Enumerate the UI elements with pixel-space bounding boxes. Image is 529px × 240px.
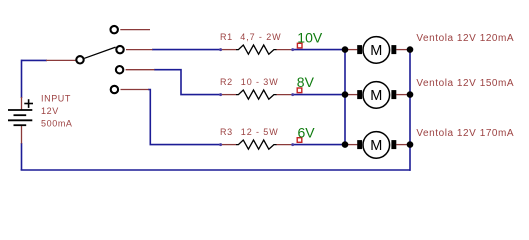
svg-text:4,7 - 2W: 4,7 - 2W	[240, 32, 281, 42]
wire battery bottom vertical	[21, 143, 23, 170]
resistor pin nodes	[219, 48, 294, 146]
node probe square row3	[297, 138, 302, 143]
switch SW1 pole lead	[46, 59, 76, 61]
resistor R3 zigzag	[236, 140, 277, 149]
motor M2 leads	[345, 94, 410, 96]
svg-text:Ventola 12V 120mA: Ventola 12V 120mA	[416, 33, 514, 44]
wire row3 R3 to motor bus	[293, 144, 346, 146]
switch contact 2 lead	[126, 49, 153, 51]
wire right bus vertical	[409, 50, 411, 171]
motor M3 left terminal	[357, 140, 362, 149]
svg-text:10V: 10V	[297, 29, 323, 45]
switch SW1 arm	[84, 47, 115, 58]
svg-text:8V: 8V	[297, 74, 315, 90]
svg-text:10 - 3W: 10 - 3W	[241, 77, 279, 87]
switch contact 4	[111, 86, 118, 93]
battery label INPUT 12V 500mA	[41, 94, 73, 129]
wire row2 R2 to motor bus	[293, 94, 346, 96]
battery B1 plates	[8, 110, 32, 125]
motor M1 body	[363, 37, 390, 64]
wire	[21, 50, 410, 171]
svg-text:M: M	[370, 138, 382, 154]
svg-text:6V: 6V	[298, 124, 316, 140]
resistor R2 leads	[221, 94, 293, 96]
wire left vertical battery top	[21, 60, 23, 98]
battery B1 leads	[21, 97, 23, 144]
junction dot row1 right	[407, 46, 414, 53]
svg-text:M: M	[370, 88, 382, 104]
svg-text:M: M	[370, 43, 382, 59]
motor M1 leads	[345, 49, 410, 51]
junction dot row1 left	[342, 46, 349, 53]
switch contact 3	[116, 66, 123, 73]
switch SW1 pole contact	[76, 56, 83, 63]
motor M2 right terminal	[391, 90, 396, 99]
wire top-left horizontal to switch pole	[22, 59, 48, 61]
node probe square row1	[297, 43, 302, 48]
wire row3 contact4 drop	[148, 90, 221, 145]
svg-text:R2: R2	[220, 77, 233, 87]
wire left motor bus vertical	[344, 50, 346, 145]
resistor R3 leads	[221, 144, 293, 146]
motor M2 body	[363, 82, 390, 109]
battery plus sign	[24, 99, 33, 108]
svg-text:R3: R3	[220, 127, 233, 137]
switch contact 3 lead	[126, 69, 155, 71]
svg-text:R1: R1	[220, 32, 233, 42]
resistor R1 zigzag	[236, 45, 277, 54]
motor M3 leads	[345, 144, 410, 146]
svg-text:Ventola 12V 150mA: Ventola 12V 150mA	[416, 78, 514, 89]
motor M1 right terminal	[391, 45, 396, 54]
svg-text:500mA: 500mA	[41, 118, 73, 128]
wire row1 switch to R1	[152, 49, 221, 51]
svg-text:Ventola 12V 170mA: Ventola 12V 170mA	[416, 128, 514, 139]
junction dot row3 right	[407, 141, 414, 148]
junction dot row3 left	[342, 141, 349, 148]
switch contact 4 lead	[121, 89, 149, 91]
motor M2 left terminal	[357, 90, 362, 99]
svg-text:12 - 5W: 12 - 5W	[241, 127, 279, 137]
switch contact 1 lead (open)	[120, 29, 150, 31]
switch contact 1	[111, 26, 118, 33]
junction dot row2 left	[342, 91, 349, 98]
node probe square row2	[297, 88, 302, 93]
resistor R1 leads	[221, 49, 293, 51]
motor M1 left terminal	[357, 45, 362, 54]
svg-text:INPUT: INPUT	[41, 94, 71, 104]
wire bottom horizontal	[21, 169, 410, 171]
resistor R2 zigzag	[236, 90, 277, 99]
junction dot row2 right	[407, 91, 414, 98]
svg-text:12V: 12V	[41, 106, 59, 116]
switch contact 2	[116, 46, 123, 53]
motor M3 right terminal	[391, 140, 396, 149]
wire row1 R1 to motor bus	[293, 49, 346, 51]
wire row2 contact3 jog	[154, 70, 221, 95]
motor M3 body	[363, 132, 390, 159]
